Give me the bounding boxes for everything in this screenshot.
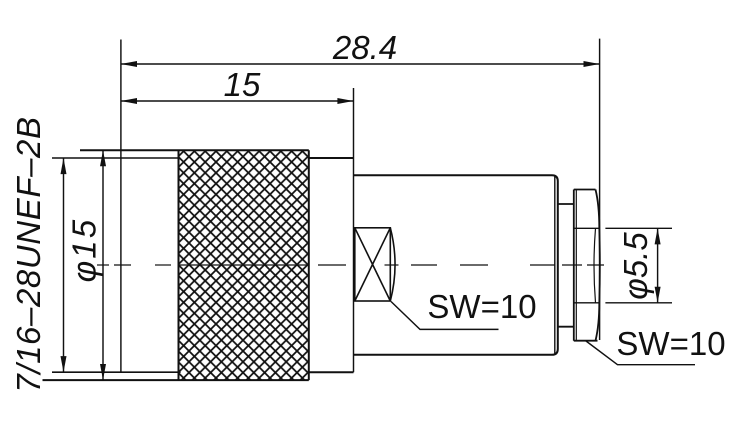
contact box (crossed rectangle) bbox=[355, 228, 395, 301]
end nut top edge bbox=[574, 189, 596, 191]
phi5.5 extension line bottom bbox=[605, 302, 672, 304]
neck top bbox=[558, 203, 574, 205]
body outline bottom (y=380.1) bbox=[43, 379, 309, 381]
end nut left edge bbox=[573, 190, 575, 341]
phi5.5 dim line bbox=[655, 228, 661, 302]
dimension line 28.4 bbox=[121, 61, 600, 67]
body outline top (y=150.2) bbox=[80, 149, 309, 151]
svg-text:φ5.5: φ5.5 bbox=[617, 232, 654, 300]
svg-text:7/16–28UNEF–2B: 7/16–28UNEF–2B bbox=[10, 116, 47, 392]
leader line SW=10 (first) bbox=[391, 302, 499, 330]
rear section bottom (y=372.2) bbox=[309, 371, 354, 373]
end nut right silhouette bbox=[596, 190, 600, 341]
dim line phi15 (x=103) bbox=[100, 150, 106, 380]
mid cylinder outline bbox=[354, 175, 558, 355]
end nut flat line lower bbox=[574, 302, 599, 304]
leader line SW=10 (second) bbox=[586, 341, 695, 365]
thread line bottom (y=372.2) bbox=[52, 371, 181, 373]
svg-text:15: 15 bbox=[224, 66, 261, 103]
extension line mid (x=353.5) bbox=[353, 88, 355, 372]
svg-text:28.4: 28.4 bbox=[332, 29, 397, 66]
end nut middle arc bbox=[594, 228, 596, 302]
end nut left inner line bbox=[575, 190, 577, 341]
svg-text:SW=10: SW=10 bbox=[616, 325, 725, 362]
knurl hatch fill bbox=[179, 150, 309, 380]
phi5.5 extension line top bbox=[605, 227, 672, 229]
end nut bottom edge bbox=[574, 340, 598, 342]
neck bottom bbox=[558, 326, 574, 328]
mid cylinder end face line bbox=[554, 177, 556, 354]
dimension line 15 bbox=[121, 98, 354, 104]
dim line 7/16-28UNEF-2B (x=63.5) bbox=[61, 158, 67, 372]
thread line top (y=157.4) bbox=[52, 157, 179, 159]
knurl right edge bbox=[308, 150, 310, 380]
svg-text:φ15: φ15 bbox=[66, 218, 103, 283]
svg-text:SW=10: SW=10 bbox=[427, 288, 536, 325]
centerline dashes bbox=[97, 264, 604, 266]
end nut flat line upper bbox=[574, 227, 599, 229]
knurl left edge bbox=[178, 150, 180, 380]
extension line left (x=121) bbox=[120, 40, 122, 373]
rear section top (y=157.4) bbox=[309, 157, 354, 159]
extension line right (x=599.6) bbox=[599, 39, 601, 340]
